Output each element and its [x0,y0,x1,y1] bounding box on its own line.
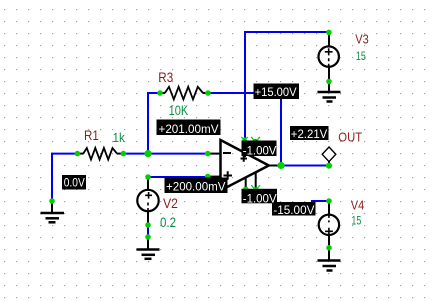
svg-text:10K: 10K [169,103,189,118]
svg-text:+200.00mV: +200.00mV [166,179,226,193]
svg-text:R3: R3 [158,69,173,85]
svg-text:0.0V: 0.0V [64,175,85,189]
svg-text:+15.00V: +15.00V [255,85,297,99]
svg-text:15: 15 [356,49,366,63]
svg-text:+201.00mV: +201.00mV [159,122,219,136]
svg-text:-15.00V: -15.00V [273,203,314,217]
svg-text:-1.00V: -1.00V [243,144,277,158]
svg-text:+2.21V: +2.21V [291,127,328,141]
svg-text:V2: V2 [163,195,178,211]
svg-text:15: 15 [351,214,361,228]
svg-text:0.2: 0.2 [160,215,176,230]
svg-text:1k: 1k [113,130,126,145]
svg-text:V4: V4 [351,199,365,213]
svg-text:R1: R1 [84,127,99,143]
svg-text:OUT: OUT [338,129,362,144]
svg-text:-1.00V: -1.00V [243,192,277,206]
svg-text:V3: V3 [355,33,369,47]
